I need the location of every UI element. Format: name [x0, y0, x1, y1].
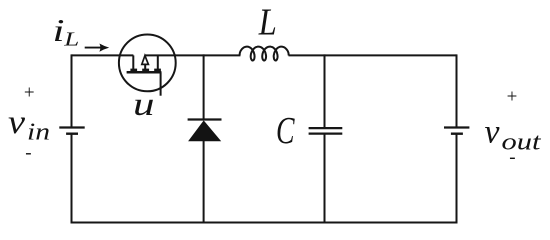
svg-text:+: +: [507, 86, 518, 107]
current arrow iL: [85, 44, 110, 52]
svg-text:+: +: [24, 82, 35, 103]
inductor L: [240, 47, 289, 61]
wire: right vertical upper (vout positive lead): [456, 54, 458, 127]
wire: top-middle horizontal (transistor to inductor): [145, 54, 241, 56]
svg-text:u: u: [133, 87, 155, 123]
wire: diode branch lower (anode lead): [203, 141, 205, 224]
svg-text:out: out: [502, 130, 543, 156]
wire: right vertical lower (vout negative lead): [456, 134, 458, 224]
wire: capacitor branch lower lead: [324, 134, 326, 223]
wire: top-left horizontal (vin to transistor): [72, 54, 134, 56]
svg-text:i: i: [53, 12, 65, 48]
wire: gate lead of transistor: [160, 72, 162, 96]
svg-text:in: in: [27, 120, 50, 146]
svg-text:L: L: [258, 2, 277, 44]
battery source vin: [59, 128, 84, 134]
wire: left vertical upper (vin positive lead): [71, 54, 73, 127]
svg-text:-: -: [509, 147, 515, 168]
wire: left vertical lower (vin negative lead): [71, 134, 73, 224]
wire: bottom horizontal rail: [71, 222, 458, 224]
svg-text:v: v: [8, 104, 26, 141]
svg-text:C: C: [276, 110, 295, 152]
transistor U1 (MOSFET switch u): [119, 35, 176, 96]
svg-text:v: v: [485, 114, 501, 151]
wire: diode branch upper (cathode lead): [203, 54, 205, 119]
capacitor C: [309, 128, 343, 134]
battery sink vout: [444, 128, 469, 134]
svg-text:L: L: [63, 29, 79, 51]
wire: capacitor branch upper lead: [324, 54, 326, 127]
diode D1 (freewheeling): [188, 120, 222, 142]
svg-text:-: -: [25, 143, 31, 164]
wire: top-right horizontal (inductor to vout): [289, 54, 457, 56]
